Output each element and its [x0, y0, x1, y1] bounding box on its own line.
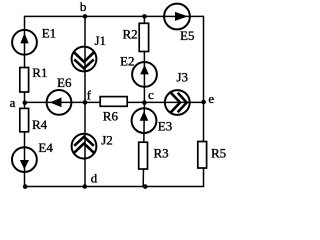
- svg-text:d: d: [91, 171, 98, 186]
- svg-text:R3: R3: [154, 145, 169, 160]
- svg-text:b: b: [80, 0, 87, 14]
- svg-text:a: a: [10, 95, 16, 110]
- svg-text:c: c: [148, 87, 154, 102]
- svg-text:J3: J3: [177, 69, 189, 84]
- svg-text:R1: R1: [32, 65, 47, 80]
- svg-text:E2: E2: [120, 54, 134, 69]
- svg-text:R6: R6: [103, 108, 119, 123]
- svg-text:E5: E5: [180, 28, 194, 43]
- svg-text:J2: J2: [101, 133, 113, 148]
- svg-text:E6: E6: [57, 75, 72, 90]
- svg-text:R5: R5: [211, 145, 226, 160]
- svg-text:E4: E4: [38, 140, 53, 155]
- svg-text:R2: R2: [123, 27, 138, 42]
- svg-text:J1: J1: [95, 33, 107, 48]
- svg-text:E3: E3: [158, 119, 172, 134]
- svg-text:e: e: [208, 91, 214, 106]
- svg-text:R4: R4: [32, 117, 48, 132]
- svg-text:E1: E1: [42, 25, 56, 40]
- svg-text:f: f: [87, 88, 92, 103]
